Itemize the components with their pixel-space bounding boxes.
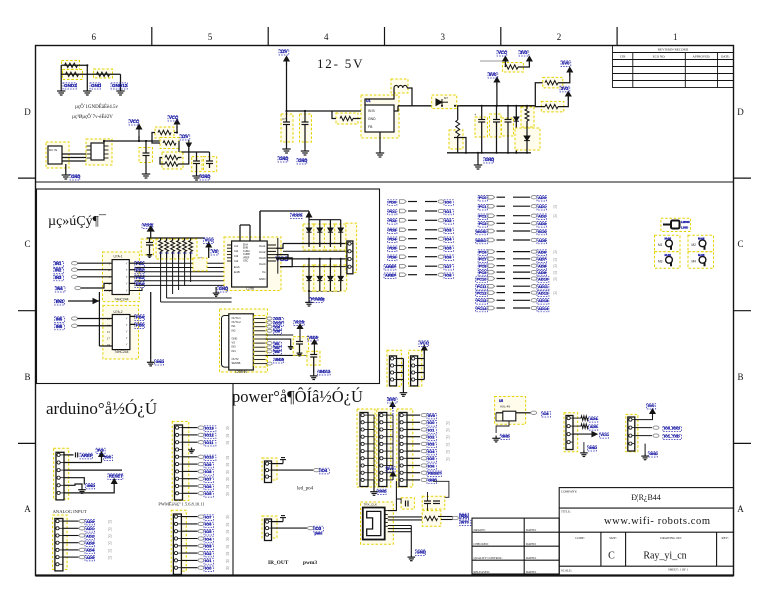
- svg-text:arduino°å½Ó¿Ú: arduino°å½Ó¿Ú: [46, 399, 157, 418]
- diode D6: [317, 276, 322, 280]
- capacitor C16: [296, 342, 303, 345]
- oscillator U5 highlight: [495, 397, 526, 425]
- wire: [329, 281, 331, 291]
- diode D8: [338, 276, 343, 280]
- ground: [83, 88, 91, 95]
- svg-text:AXL-49: AXL-49: [500, 405, 510, 409]
- wire: [368, 436, 374, 438]
- wire: [353, 118, 361, 120]
- svg-text:L298HN: L298HN: [235, 370, 247, 374]
- net label p6 IO2: [427, 435, 436, 441]
- svg-text:IN3: IN3: [55, 275, 62, 280]
- svg-text:ANALOG INPUT: ANALOG INPUT: [53, 509, 87, 514]
- net label 3V3 ard: [96, 448, 105, 453]
- wire: [181, 530, 197, 532]
- wire: [425, 201, 437, 203]
- wire: [368, 479, 374, 481]
- wire: [150, 292, 152, 360]
- revision record table: [613, 46, 734, 88]
- port PD3: [388, 228, 397, 234]
- wire: [62, 153, 91, 155]
- port IN1: [54, 262, 64, 268]
- svg-text:[2]: [2]: [226, 544, 230, 548]
- terminal2 PC12: [531, 291, 537, 294]
- wire: [272, 469, 314, 471]
- terminal E2: [198, 530, 204, 533]
- svg-text:GND: GND: [298, 158, 307, 163]
- svg-text:GND: GND: [485, 157, 494, 162]
- svg-text:Vs: Vs: [262, 270, 266, 274]
- svg-text:APPROVED:: APPROVED:: [693, 55, 711, 59]
- power flag rj: [390, 472, 395, 481]
- net label p7 vcc: [599, 433, 608, 438]
- resistor R10: [505, 65, 518, 69]
- capacitor C19 highlight: [401, 498, 414, 509]
- wire: [513, 215, 530, 217]
- wire: [160, 158, 165, 165]
- svg-text:Y: Y: [126, 336, 128, 340]
- wire: [635, 414, 653, 419]
- diode D8 highlight: [335, 265, 347, 291]
- net label IO12: [204, 433, 216, 439]
- connector P1 highlight: [346, 223, 357, 273]
- terminal PC6: [488, 250, 495, 254]
- net label eIO6: [204, 522, 213, 528]
- net label VCC: [129, 119, 139, 125]
- net label PB4: [135, 282, 145, 288]
- svg-text:AREF: AREF: [385, 273, 396, 278]
- terminal A4: [79, 548, 85, 551]
- net label VS: [211, 249, 218, 255]
- net label led_po4: [320, 468, 330, 474]
- svg-text:D: D: [737, 107, 744, 117]
- net label AD4: [537, 229, 546, 235]
- svg-text:ECO NO:: ECO NO:: [653, 55, 666, 59]
- net label IO13: [204, 426, 216, 432]
- svg-text:GND: GND: [87, 484, 96, 488]
- terminal2 PC7: [531, 257, 537, 260]
- resistor R3 highlight: [62, 61, 80, 71]
- terminal A1: [79, 527, 85, 530]
- net label eIO4: [204, 537, 213, 543]
- capacitor C9: [478, 120, 485, 123]
- svg-text:IO6: IO6: [205, 484, 212, 489]
- ground: [305, 300, 313, 306]
- svg-text:VCC: VCC: [169, 115, 178, 120]
- capacitor C15: [146, 243, 153, 246]
- wire: [497, 271, 506, 273]
- connector J4: [175, 425, 183, 500]
- zone tick top 1: [151, 27, 153, 46]
- svg-text:IO4: IO4: [321, 468, 328, 473]
- svg-text:IO5: IO5: [428, 456, 435, 461]
- svg-text:IR_OUT: IR_OUT: [268, 560, 289, 566]
- wire: [272, 463, 284, 465]
- diode D3: [328, 228, 333, 232]
- power arrow bridge: [306, 212, 311, 219]
- motor M3 highlight: [655, 252, 681, 268]
- svg-text:VCC: VCC: [498, 50, 507, 55]
- svg-text:PC10: PC10: [476, 276, 487, 281]
- connector J6 highlight: [262, 458, 277, 480]
- svg-text:GND: GND: [91, 83, 102, 88]
- power flag VCC2: [174, 120, 179, 129]
- wire: [276, 258, 347, 260]
- diode D7 highlight: [324, 265, 336, 291]
- net label IO5: [444, 246, 453, 252]
- svg-text:RESET: RESET: [428, 471, 442, 476]
- wire: [368, 465, 374, 467]
- svg-text:12V: 12V: [280, 49, 288, 54]
- net label PB1: [135, 262, 145, 268]
- svg-text:IO8: IO8: [205, 469, 212, 474]
- wire: [62, 160, 91, 162]
- wire: [129, 269, 135, 271]
- connector P3 highlight: [409, 350, 422, 386]
- terminal p6 9: [421, 478, 427, 481]
- wire: [497, 205, 506, 207]
- wire: [260, 210, 309, 212]
- port PD5: [388, 246, 397, 252]
- wire: [280, 266, 347, 268]
- svg-text:GND: GND: [378, 490, 387, 494]
- terminal p8b: [653, 434, 659, 437]
- svg-text:[2]: [2]: [446, 457, 450, 461]
- svg-text:IO12: IO12: [205, 433, 214, 438]
- wire: [178, 238, 180, 241]
- wire: [516, 412, 531, 414]
- resistor R14 highlight: [422, 511, 441, 527]
- capacitor C2 highlight: [192, 157, 202, 172]
- svg-text:GND5: GND5: [275, 358, 284, 362]
- wire: [425, 247, 437, 249]
- terminal PD4: [400, 237, 407, 241]
- resistor R11 highlight: [543, 77, 563, 88]
- wire: [425, 229, 437, 231]
- LED LED1 highlight: [661, 218, 691, 231]
- capacitor C1: [143, 153, 150, 156]
- wire: [60, 65, 62, 88]
- net label 12V top: [279, 49, 289, 55]
- wire: [286, 111, 288, 122]
- ground: [297, 351, 303, 356]
- svg-text:Y: Y: [126, 289, 128, 293]
- svg-text:Out3: Out3: [259, 256, 266, 260]
- svg-text:[2]: [2]: [108, 541, 112, 545]
- net label GND rj: [416, 550, 426, 556]
- terminal u4 2: [267, 325, 272, 328]
- svg-text:[2]: [2]: [108, 548, 112, 552]
- svg-text:M-06: M-06: [698, 237, 705, 241]
- junction: [481, 152, 483, 154]
- svg-text:In2: In2: [234, 249, 239, 253]
- power flag VCC: [136, 125, 141, 142]
- svg-text:IO9: IO9: [205, 462, 212, 467]
- resistor: [525, 109, 529, 121]
- capacitor C17 highlight: [307, 351, 320, 365]
- terminal PC7: [488, 257, 495, 261]
- connector P7: [566, 416, 573, 450]
- svg-text:AD10: AD10: [538, 276, 549, 281]
- wire: [387, 429, 393, 431]
- wire: [496, 413, 509, 433]
- net label AD10: [537, 277, 549, 283]
- svg-text:REVISION RECORD: REVISION RECORD: [658, 48, 689, 52]
- svg-text:PD2: PD2: [389, 218, 398, 223]
- wire: [441, 519, 453, 521]
- svg-text:pwm: pwm: [315, 532, 323, 536]
- ground: [580, 450, 588, 456]
- net label txd: [663, 434, 682, 439]
- net label GND p4: [377, 489, 386, 494]
- wire: [152, 133, 160, 144]
- wire: [460, 105, 534, 107]
- svg-text:IO3: IO3: [205, 544, 212, 549]
- ground: [78, 487, 86, 493]
- wire: [513, 222, 530, 224]
- wire: [407, 457, 420, 459]
- capacitor C18: [76, 452, 78, 457]
- wire: [78, 262, 113, 264]
- svg-text:OUT4-1: OUT4-1: [232, 316, 242, 320]
- port arrow up power: [390, 402, 395, 409]
- wire: [62, 157, 91, 159]
- svg-text:In4: In4: [234, 259, 239, 263]
- svg-text:VS: VS: [232, 341, 236, 345]
- port PC0: [478, 196, 487, 202]
- wire: [309, 219, 341, 221]
- resistor R4 highlight: [63, 70, 83, 80]
- diode D6 highlight: [314, 265, 326, 291]
- diode D4 highlight: [335, 224, 347, 250]
- wire: [433, 481, 449, 497]
- power arrow pin6: [112, 479, 117, 484]
- svg-text:IO7: IO7: [205, 477, 212, 482]
- svg-text:5V0: 5V0: [387, 467, 394, 471]
- wire: [64, 462, 102, 464]
- ground: [147, 360, 155, 366]
- resistor R6 R7 highlight: [162, 152, 183, 169]
- net label AD6: [537, 250, 546, 256]
- wire: [513, 292, 530, 294]
- terminal PC11: [488, 284, 495, 288]
- wire: [147, 237, 205, 239]
- net label u4 0: [274, 317, 284, 322]
- ground: [147, 253, 153, 258]
- wire: [573, 417, 581, 419]
- svg-text:[2]: [2]: [226, 530, 230, 534]
- wire: [418, 379, 425, 381]
- ground: [116, 88, 124, 95]
- svg-text:pwm3: pwm3: [303, 560, 317, 566]
- wire: [181, 552, 197, 554]
- wire: [276, 258, 292, 267]
- svg-text:VCC: VCC: [420, 341, 429, 346]
- terminal IN3: [72, 275, 78, 278]
- resistor R2 highlight: [160, 138, 179, 149]
- terminal PC9: [488, 270, 495, 274]
- svg-text:DC IN: DC IN: [49, 148, 57, 152]
- net label PB5: [135, 323, 145, 329]
- wire: [438, 516, 453, 518]
- wire: [387, 421, 393, 423]
- svg-text:TITLE:: TITLE:: [561, 510, 571, 514]
- net label GND ard: [86, 484, 95, 489]
- power flag p8: [650, 409, 655, 418]
- svg-text:IO3: IO3: [428, 442, 435, 447]
- wire: [136, 262, 232, 264]
- terminal2 PC9: [531, 270, 537, 273]
- capacitor C11: [505, 120, 512, 123]
- net label PB3: [135, 275, 145, 281]
- motor M4 highlight: [688, 252, 714, 268]
- junction: [526, 152, 528, 154]
- svg-text:IO6: IO6: [275, 330, 280, 334]
- terminal osc: [531, 411, 537, 414]
- svg-text:IN3: IN3: [275, 350, 280, 354]
- wire: [497, 196, 506, 198]
- net label 3V3: [519, 50, 529, 56]
- svg-text:VCC: VCC: [130, 119, 139, 124]
- resistor RP4: [177, 241, 181, 252]
- svg-text:[2]: [2]: [554, 257, 558, 261]
- svg-text:PC6: PC6: [479, 249, 488, 254]
- svg-text:VCC: VCC: [205, 238, 214, 243]
- svg-text:µç»úÇý¶¯: µç»úÇý¶¯: [48, 214, 107, 229]
- terminal2 PC3: [531, 222, 537, 225]
- net label p6 RESET: [427, 471, 441, 477]
- svg-text:LS0D: LS0D: [681, 226, 688, 230]
- wire: [418, 365, 425, 367]
- svg-text:IN4: IN4: [232, 349, 237, 353]
- wire: [68, 300, 99, 302]
- wire: [397, 372, 404, 374]
- svg-text:power°å¶ÔÍâ½Ó¿Ú: power°å¶ÔÍâ½Ó¿Ú: [232, 387, 363, 406]
- resistor R14: [425, 516, 438, 520]
- net label bridge: [310, 297, 323, 302]
- capacitor C19: [406, 501, 409, 507]
- wire: [558, 73, 570, 83]
- port big 7: [384, 265, 396, 271]
- IC U3 L298: [232, 241, 268, 287]
- svg-text:4: 4: [324, 32, 329, 42]
- svg-text:GND: GND: [501, 435, 510, 439]
- net label VCC uln: [294, 321, 304, 326]
- ground: [62, 172, 70, 179]
- net label PD0 stray: [460, 515, 469, 520]
- wire: [496, 412, 503, 414]
- net label AREF: [80, 453, 92, 459]
- terminal2 PC6: [531, 250, 537, 253]
- wire: [515, 106, 517, 117]
- wire: [368, 421, 374, 423]
- wire: [410, 526, 412, 555]
- connector J4 highlight: [172, 421, 189, 500]
- svg-text:IN B: IN B: [368, 109, 375, 113]
- svg-text:15: 15: [107, 330, 111, 334]
- wire: [513, 299, 530, 301]
- terminal2 PC14: [531, 306, 537, 309]
- net label eIO0: [204, 566, 213, 572]
- capacitor C3 highlight: [204, 157, 217, 172]
- net label AD3: [537, 222, 546, 228]
- net label VCC bus: [142, 223, 153, 228]
- svg-text:GND: GND: [417, 550, 426, 555]
- svg-text:SCALE:: SCALE:: [561, 569, 572, 573]
- svg-text:µçÔ´1GNDÊäÈë4.5v: µçÔ´1GNDÊäÈë4.5v: [75, 104, 119, 110]
- terminal2 PD8: [438, 273, 444, 276]
- junction: [304, 110, 306, 112]
- svg-text:AREF: AREF: [81, 453, 93, 458]
- svg-text:IN5: IN5: [56, 317, 63, 322]
- wire: [266, 354, 314, 356]
- wire: [644, 444, 646, 454]
- svg-text:GND12: GND12: [112, 83, 128, 88]
- svg-text:AD1: AD1: [86, 526, 95, 531]
- svg-text:Y: Y: [126, 261, 128, 265]
- svg-text:LTR: LTR: [620, 55, 627, 59]
- svg-text:IO13: IO13: [205, 425, 214, 430]
- svg-text:[2]: [2]: [554, 277, 558, 281]
- wire: [259, 211, 261, 241]
- svg-text:GND: GND: [259, 277, 267, 281]
- svg-text:AD5: AD5: [590, 425, 598, 429]
- wire: [178, 258, 180, 290]
- net label IO5: [204, 492, 213, 498]
- svg-text:PD0: PD0: [461, 515, 468, 519]
- wire: [408, 265, 417, 267]
- wire: [178, 157, 182, 159]
- svg-text:led_po4: led_po4: [297, 487, 314, 492]
- svg-text:PB3: PB3: [136, 275, 145, 280]
- net label AD12: [537, 291, 549, 297]
- junction: [285, 110, 287, 112]
- net label p6 IO3: [427, 442, 436, 448]
- wire: [63, 542, 79, 544]
- wire: [149, 245, 151, 253]
- wire: [309, 290, 341, 292]
- resistor RP1: [159, 241, 163, 252]
- junction: [515, 152, 517, 154]
- diode D5: [306, 276, 311, 280]
- wire: [78, 318, 113, 320]
- wire: [425, 238, 437, 240]
- zone tick right 2: [734, 310, 752, 312]
- motor M1 symbol: [666, 240, 673, 250]
- terminal u4 7: [267, 346, 272, 349]
- wire: [497, 307, 506, 309]
- svg-text:IN6: IN6: [56, 324, 63, 329]
- svg-text:IO7: IO7: [445, 264, 452, 269]
- net label IO8: [444, 273, 453, 279]
- svg-text:MOSI: MOSI: [476, 229, 486, 234]
- net label GND: [200, 174, 210, 180]
- svg-text:IN2: IN2: [55, 268, 62, 273]
- svg-text:C: C: [737, 239, 743, 249]
- junction: [477, 152, 479, 154]
- zone tick top 2: [267, 27, 269, 46]
- wire: [103, 141, 105, 143]
- svg-text:M4: M4: [692, 259, 697, 263]
- wire: [319, 281, 321, 291]
- terminal p6 5: [421, 449, 427, 452]
- svg-text:AD3: AD3: [86, 541, 95, 546]
- wire: [286, 125, 288, 147]
- svg-text:AD13: AD13: [538, 298, 549, 303]
- wire: [408, 256, 417, 258]
- connector P7 highlight: [564, 413, 578, 452]
- svg-text:VCC5: VCC5: [295, 321, 304, 325]
